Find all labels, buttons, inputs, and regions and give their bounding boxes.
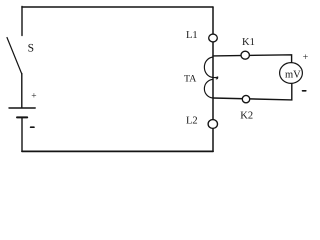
wire secondary bottom: meter to K2 to coil bottom	[213, 84, 292, 100]
svg-text:+: +	[31, 91, 36, 101]
terminal K1	[241, 51, 249, 59]
wire secondary top: coil top to meter corner	[213, 55, 292, 63]
battery short plate (-)	[17, 116, 27, 118]
svg-text:+: +	[303, 52, 309, 63]
label - meter	[303, 90, 306, 92]
coil winding TA middle hook	[213, 77, 218, 79]
coil winding TA arc 1	[204, 57, 213, 78]
svg-text:K2: K2	[240, 111, 253, 122]
terminal L2	[208, 120, 217, 129]
wire left upper segment to switch	[21, 7, 23, 36]
battery long plate (+)	[9, 107, 35, 109]
svg-text:L1: L1	[186, 30, 198, 41]
svg-text:mV: mV	[285, 70, 301, 81]
wire top horizontal	[22, 6, 213, 8]
wire switch pivot down to battery	[21, 74, 23, 108]
millivoltmeter mV body	[280, 63, 303, 84]
wire right vertical (through coil region)	[212, 7, 214, 151]
terminal L1	[209, 34, 218, 42]
svg-text:TA: TA	[184, 73, 196, 84]
svg-text:S: S	[28, 43, 34, 55]
wire battery down to bottom	[21, 118, 23, 152]
coil winding TA arc 2	[204, 79, 213, 98]
wire bottom horizontal	[22, 150, 213, 152]
label - battery	[31, 126, 34, 128]
svg-text:L2: L2	[186, 116, 198, 127]
switch S blade (open)	[7, 38, 22, 75]
svg-text:K1: K1	[242, 37, 255, 48]
terminal K2	[242, 95, 249, 102]
